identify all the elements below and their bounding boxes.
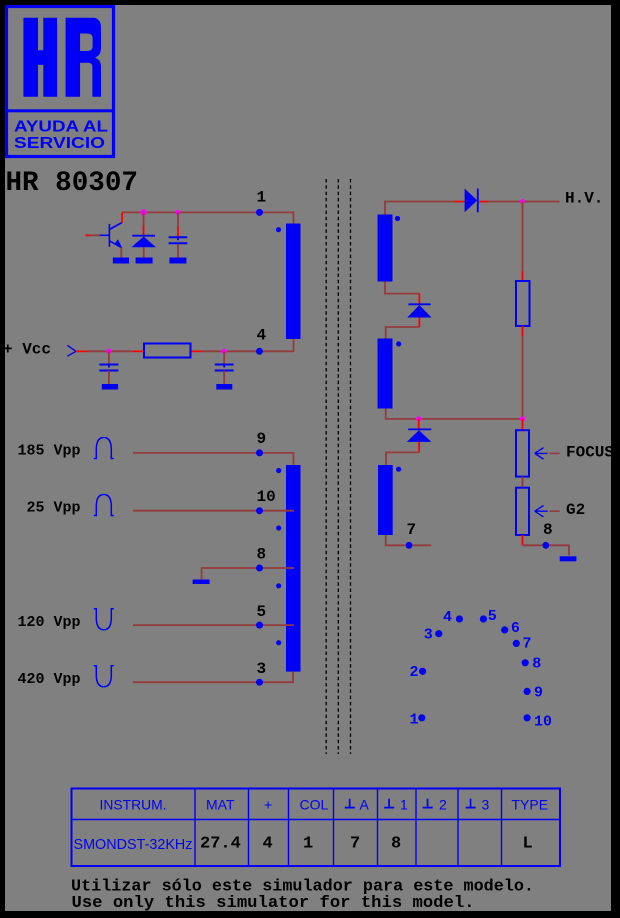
svg-text:FOCUS: FOCUS <box>566 444 614 462</box>
winding L4 (lower right) <box>378 465 393 535</box>
ground (C3) <box>216 384 232 390</box>
wire C1 to ground <box>177 244 179 258</box>
wire D4 to winding L4 <box>386 442 420 465</box>
node pin 4 <box>256 327 267 355</box>
diode D2 (H.V. rectifier) <box>465 189 478 213</box>
svg-text:9: 9 <box>534 685 543 702</box>
phase dot L5 a <box>276 468 281 473</box>
table value SMONDST-32KHz <box>74 836 193 853</box>
ground (D1) <box>136 258 153 264</box>
svg-text:8: 8 <box>532 655 541 672</box>
table header ⊥A <box>345 797 370 813</box>
footer line english <box>72 893 475 912</box>
node pin 3 <box>256 660 266 686</box>
wire C3 to ground <box>223 371 225 385</box>
table header + <box>264 797 272 813</box>
wire pin 8 to ground stub <box>202 568 294 580</box>
svg-text:TYPE: TYPE <box>512 797 549 813</box>
svg-text:4: 4 <box>263 835 273 854</box>
wire Q1 collector stub (red) <box>121 212 123 223</box>
wire R3 to R4 <box>522 477 524 488</box>
table header ⊥1 <box>384 797 408 813</box>
svg-text:G2: G2 <box>566 501 585 519</box>
svg-text:A: A <box>360 797 370 813</box>
diode D3 <box>407 304 431 317</box>
svg-text:185 Vpp: 185 Vpp <box>18 443 81 460</box>
phase dot L2 <box>395 216 400 221</box>
waveform negative pulse (420 Vpp) <box>94 666 114 687</box>
pinout pin 8 <box>522 659 529 666</box>
table header TYPE <box>512 797 549 813</box>
label G2 <box>566 501 585 519</box>
ground (divider bottom) <box>560 556 577 561</box>
label 25 Vpp <box>27 500 81 517</box>
svg-text:+: + <box>264 797 272 813</box>
svg-text:AYUDA AL: AYUDA AL <box>14 119 108 136</box>
junction node <box>222 349 227 354</box>
svg-text:7: 7 <box>523 635 532 652</box>
svg-text:7: 7 <box>407 521 417 539</box>
ground stub (pin 8) <box>193 580 210 585</box>
label 185 Vpp <box>18 443 81 460</box>
wire D2 to H.V. <box>479 201 560 203</box>
pinout pin 10 <box>524 714 531 721</box>
wire FOCUS junction to R3 <box>522 419 524 430</box>
svg-text:4: 4 <box>443 609 452 626</box>
label H.V. <box>565 190 603 208</box>
svg-text:3: 3 <box>424 626 433 643</box>
node pin 8 (right) <box>542 521 552 549</box>
table header INSTRUM. <box>100 797 167 813</box>
title HR 80307 <box>6 168 138 199</box>
pinout diagram <box>410 608 553 730</box>
wire D3 to winding L3 <box>386 318 421 339</box>
svg-text:H.V.: H.V. <box>565 190 603 208</box>
svg-text:1: 1 <box>410 712 419 729</box>
data table <box>72 789 561 867</box>
wire 420 Vpp to pin 3 <box>133 672 293 683</box>
phase dot L4 <box>396 467 401 472</box>
svg-text:10: 10 <box>534 713 552 730</box>
pinout pin 4 <box>456 615 463 622</box>
svg-text:3: 3 <box>482 797 490 813</box>
wire Vcc rail <box>76 339 294 352</box>
svg-text:COL: COL <box>300 797 329 813</box>
wire 25 Vpp to pin 10 <box>133 510 294 512</box>
table value 7 <box>350 835 360 854</box>
resistor R3 (FOCUS divider) <box>516 430 529 476</box>
junction node <box>520 416 525 421</box>
svg-text:MAT: MAT <box>206 797 235 813</box>
pinout pin 2 <box>419 668 426 675</box>
table value 1 <box>303 835 313 854</box>
table value 27.4 <box>200 835 241 854</box>
wire Q1 base <box>86 234 100 236</box>
wire L2 top to diode D2 <box>385 201 465 215</box>
wire Q1 emitter to ground <box>120 248 122 258</box>
node pin 1 <box>256 189 266 216</box>
diode D4 <box>407 429 432 442</box>
pinout pin 5 <box>480 615 487 622</box>
winding L3 (middle right) <box>378 339 393 409</box>
logo text AYUDA AL <box>14 119 108 136</box>
pinout pin 7 <box>513 640 520 647</box>
capacitor C1 <box>169 237 188 246</box>
transformer core (dashed lines) <box>326 179 350 754</box>
capacitor C3 <box>215 365 234 374</box>
wire G2 stub <box>550 510 560 512</box>
table value L <box>523 835 533 854</box>
svg-text:8: 8 <box>543 521 553 539</box>
svg-text:6: 6 <box>511 620 520 637</box>
pinout pin 9 <box>524 688 531 695</box>
svg-text:HR 80307: HR 80307 <box>6 168 138 199</box>
ground (Q1 emitter) <box>113 258 129 264</box>
winding L5 (left secondary) <box>286 465 301 672</box>
wire C2 to ground <box>108 371 110 385</box>
junction node <box>140 209 146 215</box>
pinout pin 3 <box>435 630 442 637</box>
pinout pin 6 <box>501 626 508 633</box>
phase dot L3 <box>396 341 401 346</box>
logo text SERVICIO <box>14 135 105 152</box>
HR logo box <box>7 7 114 157</box>
svg-text:10: 10 <box>257 488 276 506</box>
junction node (H.V.) <box>520 199 525 204</box>
wire junction to C3 <box>223 351 225 364</box>
svg-text:5: 5 <box>257 603 267 621</box>
node pin 7 <box>406 521 417 549</box>
svg-text:SERVICIO: SERVICIO <box>14 135 105 152</box>
wire junction to C1 <box>177 212 179 237</box>
wire top rail (collector to pin 1 to winding L1) <box>122 212 294 223</box>
ground (C2) <box>102 384 118 390</box>
diode D1 <box>131 236 156 248</box>
svg-text:L: L <box>523 835 533 854</box>
winding L1 <box>286 224 301 340</box>
resistor R1 <box>144 344 191 358</box>
wire L4 bottom to pin 7 <box>386 535 432 545</box>
waveform negative pulse (120 Vpp) <box>94 609 114 630</box>
transistor Q1 <box>100 223 123 249</box>
svg-text:7: 7 <box>350 835 360 854</box>
wire H.V. junction down to R2 <box>522 202 524 282</box>
svg-text:2: 2 <box>410 664 419 681</box>
wire L2 bottom to diode D3 <box>385 282 420 305</box>
table header ⊥2 <box>423 797 447 813</box>
wire 185 Vpp to pin 9 <box>133 453 294 465</box>
phase dot L5 c <box>276 583 281 588</box>
wire junction to D4 <box>418 419 420 430</box>
wire 120 Vpp to pin 5 <box>133 624 294 626</box>
ground (C1) <box>169 258 186 264</box>
svg-text:5: 5 <box>488 608 497 625</box>
junction node <box>175 210 180 215</box>
svg-text:1: 1 <box>257 189 267 207</box>
node pin 5 <box>256 603 266 629</box>
resistor R4 (G2 divider) <box>516 488 529 535</box>
arrow G2 <box>535 506 548 517</box>
wire junction to D1 <box>143 212 145 235</box>
junction node <box>416 416 421 421</box>
wire D1 anode to ground <box>143 247 145 257</box>
label + Vcc <box>3 341 51 359</box>
label 420 Vpp <box>18 671 81 688</box>
svg-text:8: 8 <box>391 835 401 854</box>
svg-text:Use only this simulator for th: Use only this simulator for this model. <box>72 893 475 912</box>
label FOCUS <box>566 444 614 462</box>
footer line spanish <box>71 877 534 896</box>
phase dot L1 <box>276 227 281 232</box>
capacitor C2 <box>99 365 118 374</box>
label 120 Vpp <box>18 614 81 631</box>
wire R2 to FOCUS junction <box>522 326 524 419</box>
node pin 9 <box>256 430 266 457</box>
table header COL <box>300 797 329 813</box>
svg-text:+ Vcc: + Vcc <box>3 341 51 359</box>
svg-text:27.4: 27.4 <box>200 835 241 854</box>
wire R4 to ground rail <box>522 535 569 555</box>
table value 8 <box>391 835 401 854</box>
arrow FOCUS <box>535 448 548 459</box>
table value 4 <box>263 835 273 854</box>
svg-text:SMONDST-32KHz: SMONDST-32KHz <box>74 836 193 853</box>
node pin 10 <box>256 488 276 514</box>
svg-text:8: 8 <box>257 545 267 563</box>
node pin 8 <box>256 545 266 571</box>
HR logo letters <box>23 18 101 97</box>
pinout pin 1 <box>418 714 425 721</box>
svg-text:INSTRUM.: INSTRUM. <box>100 797 167 813</box>
svg-text:9: 9 <box>257 430 267 448</box>
waveform positive pulse (25 Vpp) <box>94 495 114 516</box>
svg-text:3: 3 <box>257 660 267 678</box>
svg-text:1: 1 <box>303 835 313 854</box>
table header MAT <box>206 797 235 813</box>
resistor R2 (bleeder top) <box>516 281 530 326</box>
svg-text:2: 2 <box>439 797 447 813</box>
wire junction to C2 <box>108 351 110 364</box>
phase dot L5 d <box>276 640 281 645</box>
wire FOCUS stub <box>550 453 560 455</box>
svg-text:4: 4 <box>257 327 267 345</box>
winding L2 (top right) <box>378 215 393 282</box>
svg-text:420 Vpp: 420 Vpp <box>18 671 81 688</box>
phase dot L5 b <box>276 525 281 530</box>
table header ⊥3 <box>466 797 490 813</box>
svg-text:25 Vpp: 25 Vpp <box>27 500 81 517</box>
input chevron <box>67 345 76 356</box>
waveform positive pulse (185 Vpp) <box>94 438 114 459</box>
svg-text:120 Vpp: 120 Vpp <box>18 614 81 631</box>
wire L3 bottom rail <box>386 409 523 419</box>
junction node <box>106 349 111 354</box>
svg-text:1: 1 <box>400 797 408 813</box>
